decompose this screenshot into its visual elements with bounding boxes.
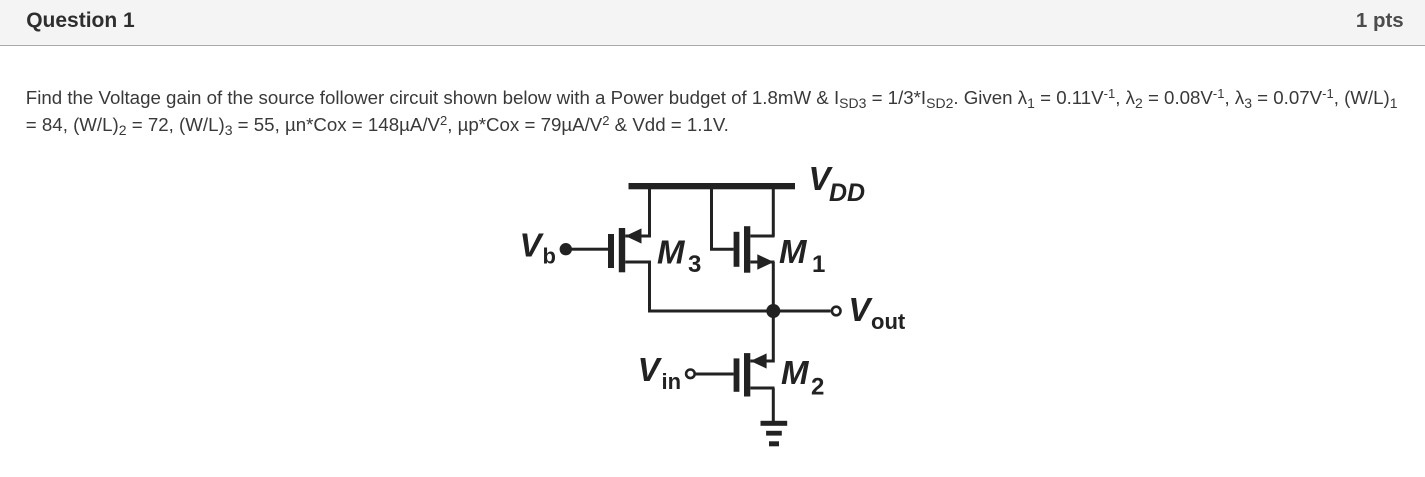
svg-text:3: 3 xyxy=(688,251,701,278)
label Vin xyxy=(638,351,681,394)
label M2 xyxy=(781,354,824,401)
svg-text:V: V xyxy=(520,227,545,264)
node: output junction dot xyxy=(766,304,780,318)
label Vout xyxy=(848,291,905,334)
svg-text:M: M xyxy=(779,233,808,270)
label VDD xyxy=(809,160,866,207)
terminal dot Vb xyxy=(560,243,572,255)
svg-text:V: V xyxy=(638,351,663,388)
wire: VDD rail down to M3 source segment xyxy=(648,186,651,237)
svg-text:b: b xyxy=(543,244,556,269)
transistor M2 xyxy=(734,353,775,396)
wire: Vb to M3 gate xyxy=(566,248,608,251)
question header bar xyxy=(0,0,1425,46)
svg-text:in: in xyxy=(662,369,682,394)
label Vb xyxy=(520,227,556,269)
VDD rail xyxy=(629,183,796,189)
wire: output node down to M2 source xyxy=(772,311,775,363)
terminal Vout (open circle) xyxy=(832,307,841,316)
wire: Vin to M2 gate xyxy=(696,373,734,376)
svg-text:2: 2 xyxy=(811,374,824,401)
svg-text:out: out xyxy=(871,309,906,334)
label M1 xyxy=(779,233,825,278)
svg-text:M: M xyxy=(657,234,686,271)
wire: VDD rail down to M1 gate xyxy=(710,186,734,251)
transistor M1 xyxy=(734,226,775,273)
ground xyxy=(761,421,788,447)
question text xyxy=(26,85,1411,138)
svg-text:M: M xyxy=(781,354,810,391)
label M3 xyxy=(657,234,701,278)
transistor M3 xyxy=(608,228,651,272)
wire: M1 source down to output node xyxy=(772,262,775,311)
wire: M1 drain up to VDD rail xyxy=(772,186,775,237)
terminal Vin (open circle) xyxy=(686,370,695,379)
svg-text:1: 1 xyxy=(812,251,825,278)
wire: M2 drain down to ground xyxy=(772,388,775,421)
wire: output row from M3 drain to Vout terminal xyxy=(648,310,831,313)
wire: M3 drain down to output wire xyxy=(648,262,651,312)
svg-text:DD: DD xyxy=(829,179,865,207)
svg-text:V: V xyxy=(848,291,873,328)
